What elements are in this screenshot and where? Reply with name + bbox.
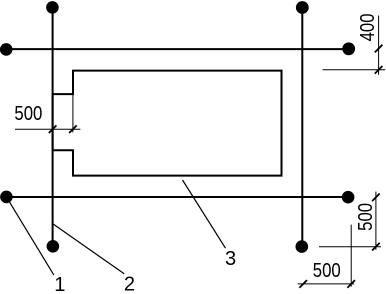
axis 2 left circle (0, 191, 13, 204)
leader line 2 (53, 224, 124, 274)
axis 1 left circle (0, 43, 13, 56)
axis B bottom circle (296, 240, 309, 253)
tick 400 at building edge (375, 66, 383, 74)
svg-text:3: 3 (225, 248, 236, 270)
axis A bottom circle (47, 240, 60, 253)
building outline with notch on left wall (53, 71, 282, 176)
leader line 1 (6, 197, 53, 275)
axis 2 right circle (342, 191, 355, 204)
dimension line left 500 (15, 128, 80, 130)
axis line A (vertical left) (52, 8, 54, 247)
extension line at bottom circle level (319, 246, 381, 248)
svg-text:400: 400 (355, 13, 378, 41)
axis line B (vertical right) (301, 8, 303, 247)
axis line 1 (horizontal top) (6, 48, 349, 50)
tick left 500 at axis A (49, 125, 57, 133)
tick bottom 500 at axis B (299, 280, 307, 288)
tick bottom 500 at extension (347, 280, 355, 288)
extension line for bottom 500 (350, 225, 352, 287)
svg-text:500: 500 (354, 203, 377, 231)
axis A top circle (46, 1, 59, 14)
tick right 500 at extension (372, 243, 380, 251)
dimension line top-right 400 (378, 16, 380, 75)
dimension line right 500 (vertical) (375, 192, 377, 250)
axis 1 right circle (342, 42, 355, 55)
dimension line bottom 500 (horizontal) (298, 283, 354, 285)
tick right 500 at axis 2 (372, 194, 380, 202)
tick 400 at axis 1 (375, 45, 383, 53)
extension line for top-right 400 dimension (323, 69, 386, 71)
svg-text:1: 1 (54, 274, 65, 294)
svg-text:2: 2 (124, 274, 135, 294)
extension line for left 500 dimension (72, 94, 74, 132)
leader line 3 (183, 180, 226, 248)
tick left 500 at wall edge (69, 125, 77, 133)
svg-text:500: 500 (313, 258, 341, 281)
axis line 2 (horizontal bottom) (6, 196, 348, 198)
svg-text:500: 500 (14, 102, 42, 125)
axis B top circle (296, 1, 309, 14)
